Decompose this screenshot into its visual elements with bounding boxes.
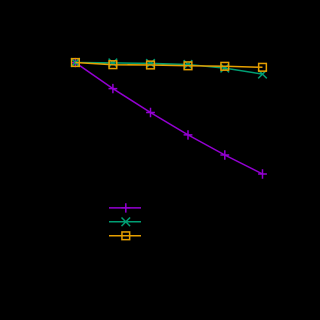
legend sample 2 (teal line with cross) — [109, 218, 141, 227]
series 3 line (orange, flat) — [75, 63, 262, 68]
legend sample 1 (purple line with plus) — [109, 203, 141, 212]
series 2 cross markers — [71, 58, 267, 78]
series 1 line (purple, declining) — [75, 63, 262, 174]
series 2 line (teal, nearly flat then dipping) — [75, 63, 262, 75]
series 3 square markers — [72, 59, 267, 72]
legend sample 3 (orange line with square) — [109, 232, 141, 240]
series 1 plus markers — [71, 58, 267, 179]
